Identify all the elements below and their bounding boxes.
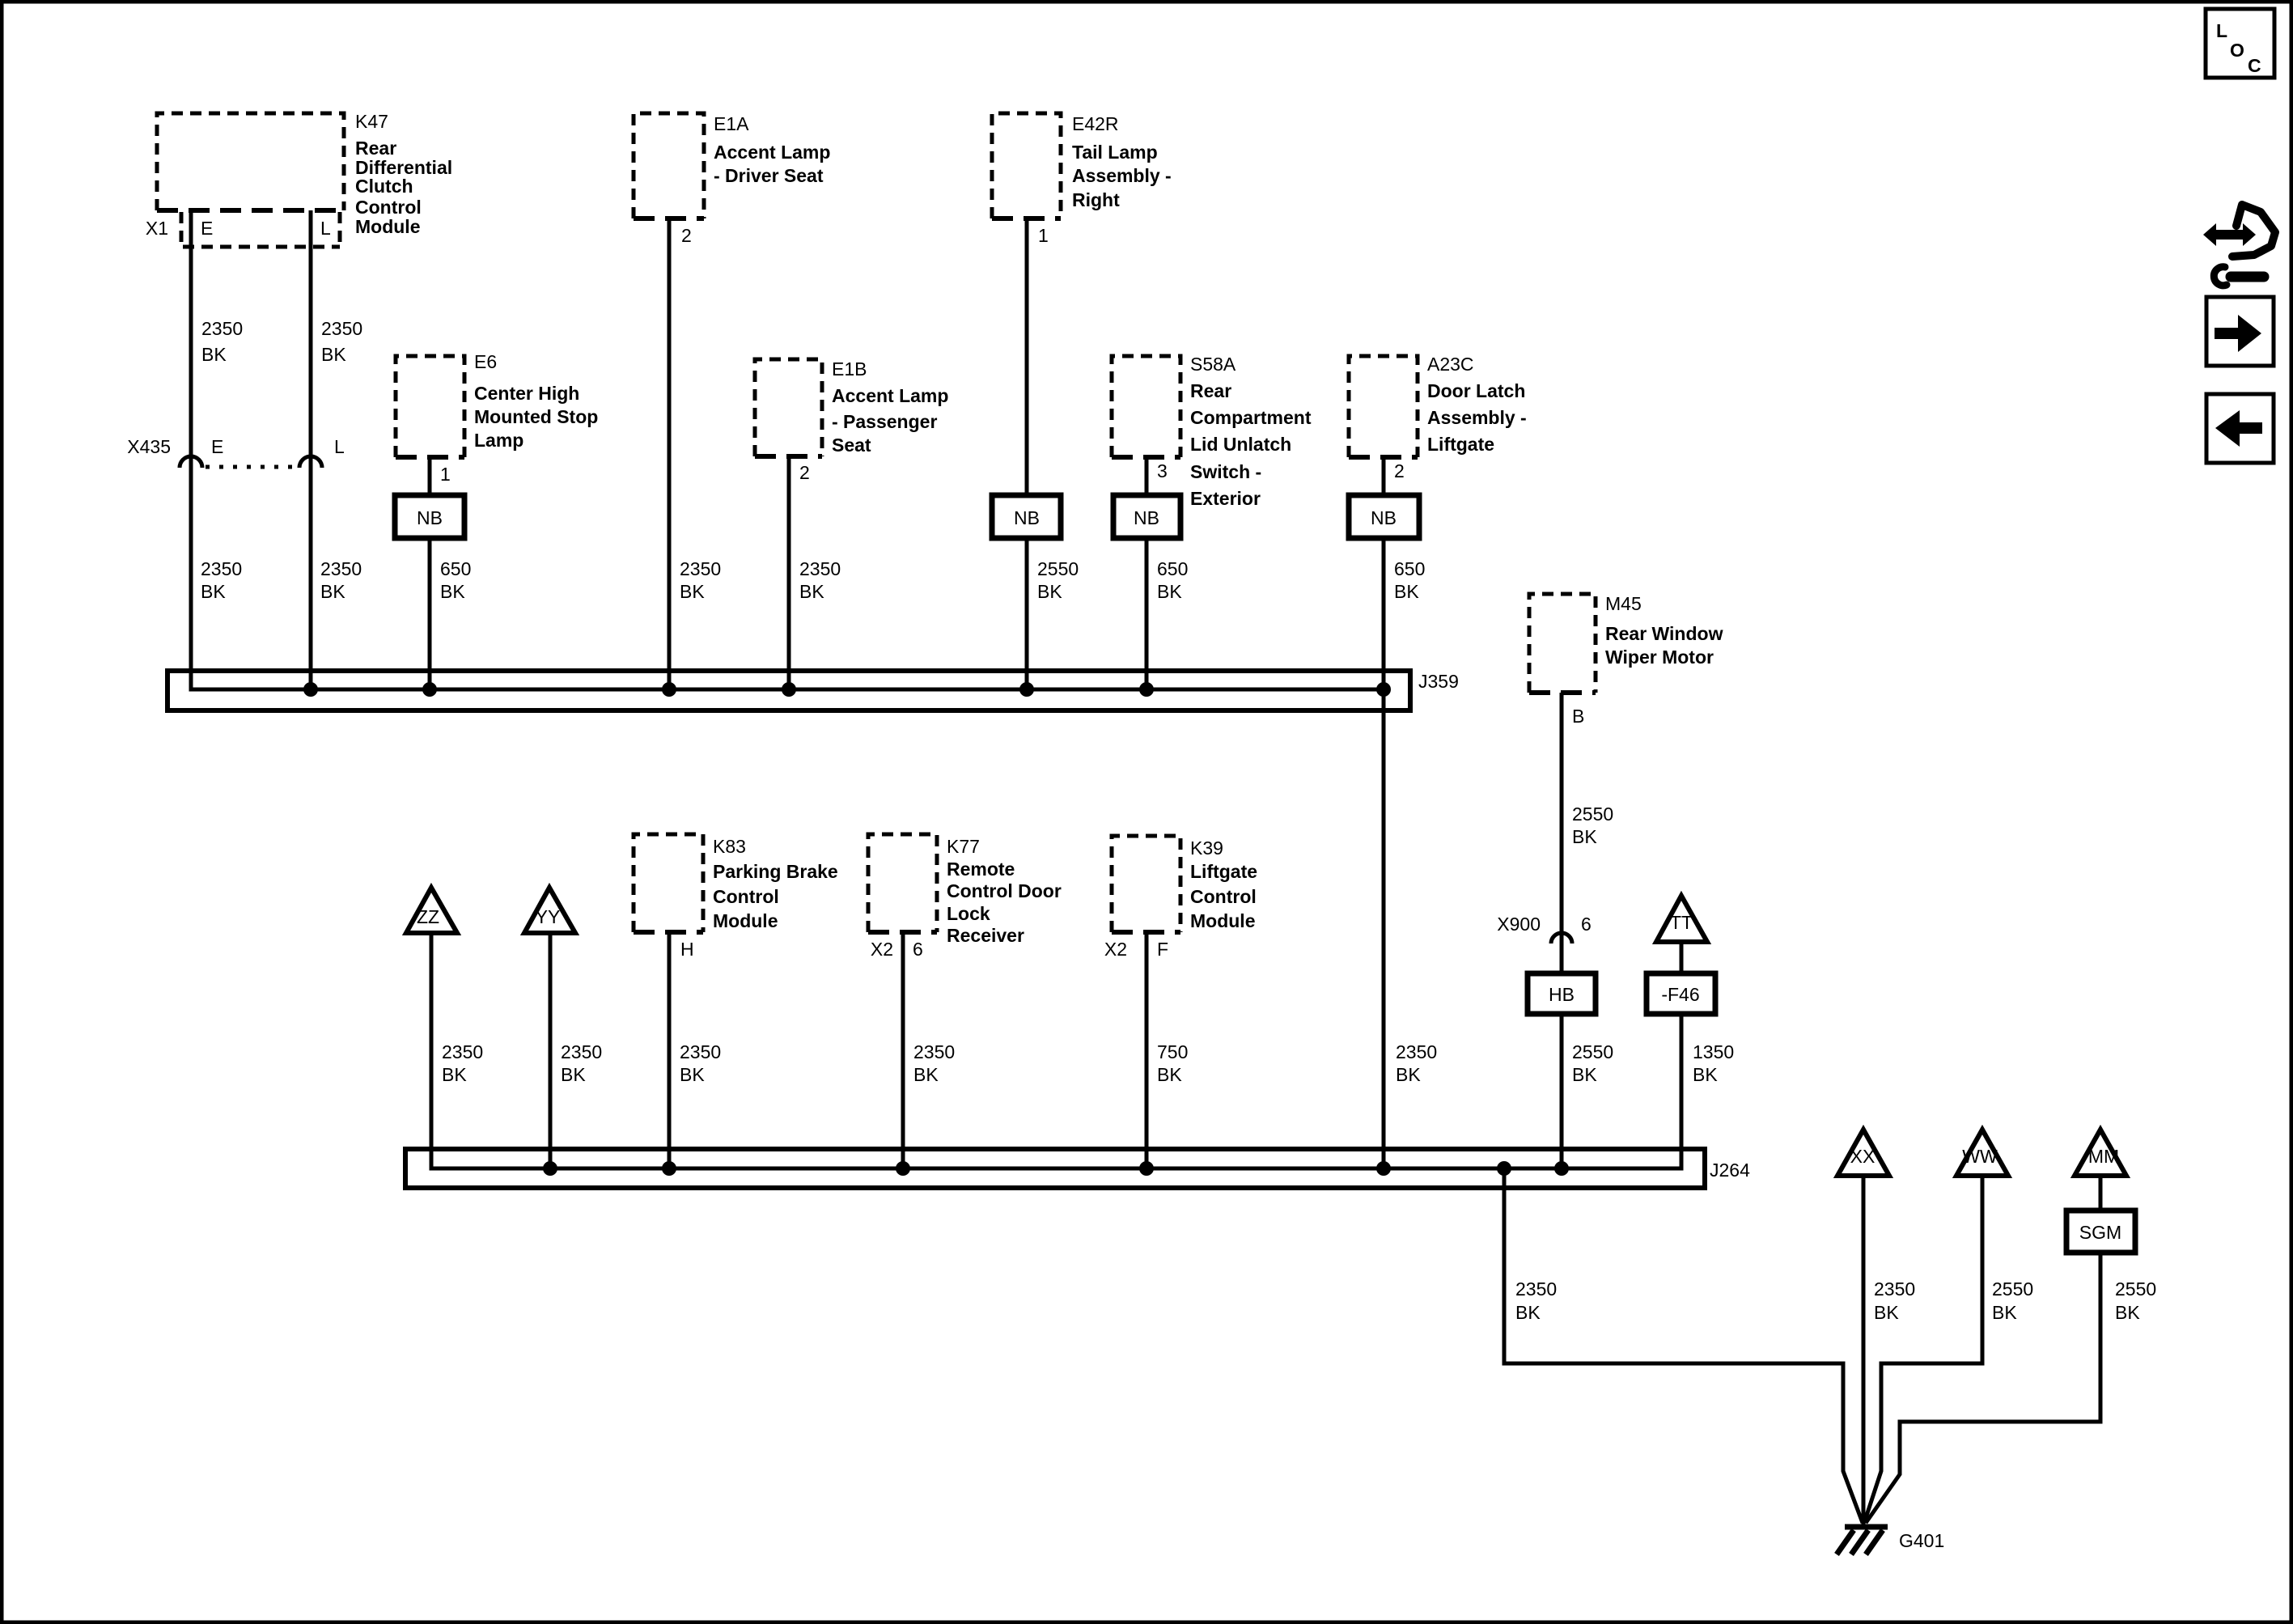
triangle MM: [2075, 1130, 2126, 1176]
svg-text:Tail Lamp: Tail Lamp: [1072, 142, 1158, 163]
svg-text:Center High: Center High: [474, 383, 579, 404]
svg-text:BK: BK: [442, 1064, 467, 1085]
junction dot YY/J264: [543, 1161, 557, 1176]
svg-text:Right: Right: [1072, 189, 1120, 210]
svg-text:2350: 2350: [1874, 1278, 1915, 1300]
svg-text:Seat: Seat: [832, 435, 871, 456]
wire MM to SGM: [2099, 1176, 2103, 1211]
LOC legend box: [2206, 9, 2274, 78]
fuse box -F46: [1647, 973, 1715, 1014]
splice pack SGM: [2066, 1211, 2135, 1253]
triangle TT: [1656, 896, 1707, 942]
svg-text:750: 750: [1157, 1041, 1188, 1062]
connector X435 dotted tie line: [206, 465, 298, 469]
wrench hook of squiggle icon: [2231, 272, 2264, 282]
svg-text:Control: Control: [713, 886, 779, 907]
wire E1B to J359: [787, 456, 791, 689]
wire 1350 BK from F46 to J264: [1680, 1014, 1684, 1168]
double-headed arrow of squiggle icon: [2203, 223, 2256, 246]
lamp E1B dashed box: [755, 359, 822, 456]
svg-text:E1A: E1A: [714, 113, 749, 134]
svg-text:Assembly -: Assembly -: [1427, 407, 1527, 428]
svg-text:Control: Control: [1190, 886, 1257, 907]
svg-text:BK: BK: [1037, 581, 1062, 602]
svg-text:MM: MM: [2088, 1146, 2119, 1167]
junction dot L/J359: [303, 682, 318, 697]
svg-text:2350: 2350: [799, 558, 841, 579]
svg-text:H: H: [680, 939, 694, 960]
svg-text:Parking Brake: Parking Brake: [713, 861, 838, 882]
junction dot E1B/J359: [782, 682, 796, 697]
svg-text:K47: K47: [355, 111, 388, 132]
wire 2550 BK from NB to J359: [1025, 538, 1029, 689]
svg-text:Receiver: Receiver: [947, 925, 1024, 946]
svg-text:BK: BK: [1157, 1064, 1182, 1085]
svg-text:X435: X435: [127, 436, 171, 457]
wire 2550 BK from HB to J264: [1560, 1014, 1564, 1168]
svg-text:E: E: [201, 218, 213, 239]
wire ZZ to J264: [430, 933, 434, 1168]
bus J264 inner wire: [431, 1165, 1681, 1168]
svg-text:Mounted Stop: Mounted Stop: [474, 406, 598, 427]
wire 2550 BK from SGM to G401: [1866, 1253, 2100, 1523]
svg-text:Liftgate: Liftgate: [1190, 861, 1257, 882]
svg-text:BK: BK: [1396, 1064, 1421, 1085]
svg-text:2350: 2350: [561, 1041, 602, 1062]
svg-text:2350: 2350: [913, 1041, 955, 1062]
svg-text:YY: YY: [536, 906, 561, 927]
svg-text:2350: 2350: [680, 1041, 721, 1062]
splice NB under S58A: [1113, 495, 1180, 538]
wire K47 pin L down: [309, 210, 313, 689]
svg-text:BK: BK: [2115, 1302, 2140, 1323]
wire 650 BK from NB to J359: [428, 538, 432, 689]
svg-text:650: 650: [1394, 558, 1425, 579]
svg-text:WW: WW: [1962, 1146, 1998, 1167]
svg-text:1350: 1350: [1693, 1041, 1734, 1062]
wire E6 pin 1 stub: [428, 457, 432, 495]
connector X435 arc E: [180, 456, 202, 468]
ground bus J359 rectangle: [167, 671, 1410, 710]
wire TT to F46: [1680, 942, 1684, 973]
svg-text:Module: Module: [355, 216, 421, 237]
svg-text:2550: 2550: [2115, 1278, 2156, 1300]
wire 2350 BK from XX to G401: [1862, 1176, 1866, 1524]
switch S58A dashed box: [1112, 356, 1180, 457]
svg-text:K77: K77: [947, 836, 980, 857]
splice NB under E6: [395, 495, 464, 538]
svg-text:2350: 2350: [1515, 1278, 1557, 1300]
junction dot A23C/J359: [1376, 682, 1391, 697]
svg-text:Wiper Motor: Wiper Motor: [1605, 647, 1714, 668]
svg-text:2350: 2350: [201, 318, 243, 339]
svg-text:BK: BK: [201, 344, 227, 365]
lamp E42R dashed box: [992, 113, 1061, 218]
splice NB under A23C: [1349, 495, 1419, 538]
junction dot K39/J264: [1139, 1161, 1154, 1176]
svg-text:Lock: Lock: [947, 903, 990, 924]
svg-text:Accent Lamp: Accent Lamp: [832, 385, 948, 406]
svg-text:Clutch: Clutch: [355, 176, 413, 197]
svg-text:Lid Unlatch: Lid Unlatch: [1190, 434, 1291, 455]
wire K83 to J264: [668, 932, 672, 1168]
svg-text:X2: X2: [871, 939, 893, 960]
svg-text:M45: M45: [1605, 593, 1642, 614]
svg-text:Lamp: Lamp: [474, 430, 523, 451]
svg-text:BK: BK: [1515, 1302, 1541, 1323]
connector X900 arc: [1551, 933, 1572, 943]
svg-text:Control Door: Control Door: [947, 880, 1062, 901]
wire K39 to J264: [1145, 932, 1149, 1168]
svg-text:Rear Window: Rear Window: [1605, 623, 1723, 644]
svg-text:2350: 2350: [321, 318, 362, 339]
svg-text:L: L: [334, 436, 345, 457]
svg-text:BK: BK: [1874, 1302, 1899, 1323]
svg-text:NB: NB: [1371, 507, 1397, 528]
triangle XX: [1837, 1130, 1889, 1176]
svg-text:Control: Control: [355, 197, 422, 218]
motor M45 dashed box: [1529, 594, 1596, 693]
svg-text:BK: BK: [320, 581, 345, 602]
junction dot K77/J264: [896, 1161, 910, 1176]
svg-text:1: 1: [1038, 225, 1049, 246]
svg-text:BK: BK: [913, 1064, 939, 1085]
svg-text:1: 1: [440, 464, 451, 485]
svg-text:3: 3: [1157, 460, 1168, 481]
svg-text:BK: BK: [440, 581, 465, 602]
svg-text:Rear: Rear: [355, 138, 396, 159]
svg-text:SGM: SGM: [2079, 1222, 2121, 1243]
wire K77 to J264: [901, 932, 905, 1168]
svg-text:X900: X900: [1497, 914, 1541, 935]
svg-text:2350: 2350: [442, 1041, 483, 1062]
svg-text:Compartment: Compartment: [1190, 407, 1312, 428]
module K47 dashed box: [157, 113, 344, 210]
svg-text:X1: X1: [146, 218, 168, 239]
svg-text:BK: BK: [799, 581, 824, 602]
svg-text:Door Latch: Door Latch: [1427, 380, 1525, 401]
wire S58A pin 3 stub: [1145, 457, 1149, 495]
svg-text:BK: BK: [1572, 826, 1597, 847]
junction dot E42R/J359: [1019, 682, 1034, 697]
svg-text:BK: BK: [1992, 1302, 2017, 1323]
svg-text:NB: NB: [417, 507, 443, 528]
svg-text:BK: BK: [561, 1064, 586, 1085]
svg-text:2550: 2550: [1037, 558, 1079, 579]
svg-text:F: F: [1157, 939, 1168, 960]
svg-text:G401: G401: [1899, 1530, 1944, 1551]
junction dot E1A/J359: [662, 682, 676, 697]
svg-text:- Passenger: - Passenger: [832, 411, 937, 432]
svg-text:K83: K83: [713, 836, 746, 857]
ground G401 symbol: [1845, 1524, 1888, 1530]
connector X435 arc L: [299, 456, 322, 468]
svg-text:2550: 2550: [1992, 1278, 2033, 1300]
junction dot A23C drop/J264: [1376, 1161, 1391, 1176]
junction dot E6/J359: [422, 682, 437, 697]
triangle ZZ: [406, 888, 457, 933]
svg-text:BK: BK: [321, 344, 346, 365]
connector X1 dashed sub-box: [181, 212, 340, 247]
lamp E6 dashed box: [396, 356, 464, 457]
triangle YY: [524, 888, 575, 933]
svg-text:BK: BK: [1693, 1064, 1718, 1085]
svg-text:E6: E6: [474, 351, 497, 372]
svg-text:TT: TT: [1670, 912, 1693, 933]
svg-text:Exterior: Exterior: [1190, 488, 1261, 509]
wire A23C pin 2 stub: [1382, 457, 1386, 495]
svg-text:2: 2: [681, 225, 692, 246]
svg-text:BK: BK: [1157, 581, 1182, 602]
wire 650 BK from NB to J359: [1145, 538, 1149, 689]
wire K47 pin E down: [189, 210, 193, 689]
junction dot G401 drop/J264: [1497, 1161, 1511, 1176]
svg-text:BK: BK: [1572, 1064, 1597, 1085]
triangle WW: [1956, 1130, 2008, 1176]
svg-text:X2: X2: [1104, 939, 1127, 960]
svg-text:2350: 2350: [1396, 1041, 1437, 1062]
svg-text:E: E: [211, 436, 223, 457]
module K39 dashed box: [1112, 836, 1180, 932]
svg-text:BK: BK: [680, 1064, 705, 1085]
svg-text:2: 2: [799, 462, 810, 483]
wire 2350 BK from J264 down to G401: [1504, 1168, 1863, 1523]
svg-text:L: L: [2216, 20, 2227, 41]
svg-text:6: 6: [913, 939, 923, 960]
svg-text:Module: Module: [713, 910, 778, 931]
svg-text:E1B: E1B: [832, 358, 867, 379]
svg-text:- Driver Seat: - Driver Seat: [714, 165, 824, 186]
module K83 dashed box: [634, 834, 703, 932]
svg-text:O: O: [2230, 40, 2244, 61]
latch A23C dashed box: [1349, 356, 1418, 457]
svg-text:BK: BK: [680, 581, 705, 602]
svg-text:A23C: A23C: [1427, 354, 1474, 375]
svg-text:J359: J359: [1418, 671, 1459, 692]
lamp E1A dashed box: [634, 113, 704, 218]
svg-text:Accent Lamp: Accent Lamp: [714, 142, 830, 163]
svg-text:Liftgate: Liftgate: [1427, 434, 1494, 455]
svg-text:2550: 2550: [1572, 804, 1613, 825]
bus J359 inner wire: [191, 686, 1384, 689]
back arrow box: [2206, 394, 2274, 463]
junction dot K83/J264: [662, 1161, 676, 1176]
junction dot S58A/J359: [1139, 682, 1154, 697]
svg-text:650: 650: [1157, 558, 1188, 579]
svg-text:650: 650: [440, 558, 471, 579]
splice pack HB: [1528, 973, 1596, 1014]
svg-text:C: C: [2248, 55, 2261, 76]
svg-text:2350: 2350: [320, 558, 362, 579]
svg-text:BK: BK: [1394, 581, 1419, 602]
wire YY to J264: [549, 933, 553, 1168]
svg-text:2550: 2550: [1572, 1041, 1613, 1062]
svg-text:2350: 2350: [201, 558, 242, 579]
splice NB under E42R: [992, 495, 1061, 538]
wire E1A to J359: [668, 218, 672, 689]
wire M45 pin B down to HB: [1560, 693, 1564, 973]
forward arrow box: [2206, 297, 2274, 366]
wire 2550 BK from WW to G401: [1864, 1176, 1982, 1523]
svg-text:K39: K39: [1190, 837, 1223, 859]
svg-text:B: B: [1572, 706, 1584, 727]
module K47 connector face: [157, 208, 344, 213]
wire E42R down to NB: [1025, 218, 1029, 495]
wire 650 BK from NB through J359 down to J264: [1382, 538, 1386, 1168]
svg-text:S58A: S58A: [1190, 354, 1236, 375]
harness routing squiggle icon: [2232, 205, 2275, 257]
svg-text:NB: NB: [1014, 507, 1040, 528]
svg-text:BK: BK: [201, 581, 226, 602]
svg-text:Switch -: Switch -: [1190, 461, 1261, 482]
svg-text:Remote: Remote: [947, 859, 1015, 880]
svg-text:E42R: E42R: [1072, 113, 1119, 134]
svg-text:6: 6: [1581, 914, 1592, 935]
svg-text:XX: XX: [1850, 1146, 1876, 1167]
svg-text:2: 2: [1394, 460, 1405, 481]
svg-text:Assembly -: Assembly -: [1072, 165, 1172, 186]
ground bus J264 rectangle: [405, 1149, 1705, 1188]
svg-text:Module: Module: [1190, 910, 1256, 931]
svg-text:NB: NB: [1134, 507, 1159, 528]
receiver K77 dashed box: [868, 834, 937, 932]
svg-text:J264: J264: [1710, 1160, 1750, 1181]
svg-text:ZZ: ZZ: [417, 906, 439, 927]
svg-text:-F46: -F46: [1661, 984, 1699, 1005]
svg-text:HB: HB: [1549, 984, 1575, 1005]
svg-text:Rear: Rear: [1190, 380, 1231, 401]
junction dot HB/J264: [1554, 1161, 1569, 1176]
svg-text:L: L: [320, 218, 331, 239]
svg-text:2350: 2350: [680, 558, 721, 579]
